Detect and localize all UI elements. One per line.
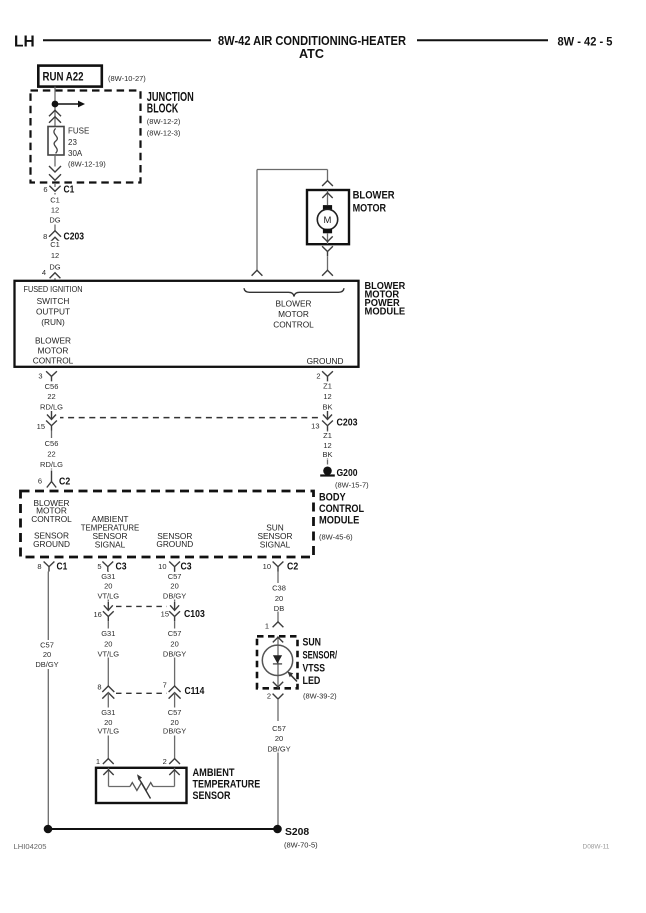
- svg-text:CONTROL: CONTROL: [31, 514, 72, 524]
- svg-text:15: 15: [37, 422, 45, 431]
- svg-text:20: 20: [275, 734, 283, 743]
- svg-text:FUSED IGNITION: FUSED IGNITION: [24, 284, 83, 294]
- svg-text:SUN: SUN: [303, 636, 322, 648]
- svg-text:CONTROL: CONTROL: [33, 355, 74, 365]
- svg-text:G31: G31: [101, 572, 115, 581]
- svg-text:BK: BK: [322, 402, 332, 411]
- svg-text:VT/LG: VT/LG: [97, 592, 119, 601]
- svg-text:12: 12: [323, 392, 331, 401]
- svg-text:C1: C1: [50, 196, 60, 205]
- svg-text:FUSE: FUSE: [68, 127, 89, 136]
- svg-text:22: 22: [47, 392, 55, 401]
- svg-text:RD/LG: RD/LG: [40, 402, 63, 411]
- svg-text:C203: C203: [64, 231, 85, 242]
- svg-text:C1: C1: [57, 562, 68, 573]
- svg-text:DB/GY: DB/GY: [35, 660, 58, 669]
- svg-text:6: 6: [43, 185, 47, 194]
- svg-text:12: 12: [323, 441, 331, 450]
- svg-text:10: 10: [263, 562, 271, 571]
- svg-text:G31: G31: [101, 708, 115, 717]
- svg-text:20: 20: [170, 718, 178, 727]
- svg-text:LED: LED: [303, 675, 321, 687]
- svg-text:(8W-70-5): (8W-70-5): [284, 841, 318, 850]
- svg-text:C3: C3: [181, 562, 192, 573]
- svg-text:C57: C57: [40, 641, 54, 650]
- svg-text:AMBIENT: AMBIENT: [193, 767, 235, 779]
- svg-text:8: 8: [43, 232, 47, 241]
- svg-text:20: 20: [43, 650, 51, 659]
- svg-text:G31: G31: [101, 629, 115, 638]
- svg-text:23: 23: [68, 138, 77, 147]
- svg-text:C38: C38: [272, 584, 286, 593]
- svg-text:MOTOR: MOTOR: [353, 203, 387, 215]
- svg-text:VT/LG: VT/LG: [97, 650, 119, 659]
- svg-text:BODY: BODY: [319, 492, 346, 504]
- svg-text:MODULE: MODULE: [365, 306, 406, 317]
- svg-text:20: 20: [104, 582, 112, 591]
- svg-text:3: 3: [38, 372, 42, 381]
- svg-text:16: 16: [93, 610, 101, 619]
- svg-text:2: 2: [163, 757, 167, 766]
- svg-text:ATC: ATC: [299, 47, 324, 61]
- svg-text:15: 15: [161, 609, 169, 618]
- svg-text:LH: LH: [14, 34, 35, 51]
- svg-text:4: 4: [42, 268, 46, 277]
- svg-text:MOTOR: MOTOR: [278, 309, 309, 319]
- svg-text:C1: C1: [64, 184, 75, 195]
- svg-text:(8W-45-6): (8W-45-6): [319, 532, 353, 541]
- svg-text:7: 7: [163, 681, 167, 690]
- svg-text:20: 20: [170, 639, 178, 648]
- svg-text:RUN A22: RUN A22: [43, 70, 84, 84]
- svg-text:MODULE: MODULE: [319, 515, 359, 527]
- svg-text:C2: C2: [287, 561, 299, 572]
- svg-text:1: 1: [265, 621, 269, 630]
- svg-text:DB/GY: DB/GY: [163, 650, 186, 659]
- svg-text:20: 20: [104, 718, 112, 727]
- svg-text:DB/GY: DB/GY: [163, 727, 186, 736]
- svg-text:6: 6: [38, 477, 42, 486]
- svg-text:VTSS: VTSS: [303, 662, 326, 674]
- svg-text:GROUND: GROUND: [156, 539, 193, 549]
- svg-text:8: 8: [97, 682, 101, 691]
- svg-text:Z1: Z1: [323, 431, 332, 440]
- svg-text:13: 13: [311, 422, 319, 431]
- svg-text:(8W-12-19): (8W-12-19): [68, 159, 106, 168]
- svg-text:1: 1: [96, 757, 100, 766]
- svg-text:22: 22: [47, 449, 55, 458]
- svg-text:C203: C203: [337, 417, 358, 428]
- svg-text:TEMPERATURE: TEMPERATURE: [193, 778, 261, 790]
- svg-text:2: 2: [316, 372, 320, 381]
- svg-text:DB/GY: DB/GY: [267, 745, 290, 754]
- svg-text:MOTOR: MOTOR: [38, 345, 69, 355]
- svg-text:SIGNAL: SIGNAL: [260, 540, 291, 550]
- svg-text:DG: DG: [49, 262, 60, 271]
- svg-text:C56: C56: [45, 382, 59, 391]
- svg-text:G200: G200: [337, 468, 358, 479]
- svg-text:BLOWER: BLOWER: [353, 190, 395, 202]
- svg-text:20: 20: [275, 594, 283, 603]
- svg-text:SIGNAL: SIGNAL: [95, 540, 126, 550]
- svg-text:M: M: [324, 215, 332, 226]
- svg-text:(8W-39-2): (8W-39-2): [303, 691, 337, 700]
- svg-text:CONTROL: CONTROL: [319, 503, 364, 515]
- svg-text:SENSOR/: SENSOR/: [303, 649, 338, 661]
- svg-text:CONTROL: CONTROL: [273, 320, 314, 330]
- svg-text:C103: C103: [184, 609, 205, 620]
- svg-text:12: 12: [51, 251, 59, 260]
- svg-text:2: 2: [267, 692, 271, 701]
- svg-text:GROUND: GROUND: [307, 356, 344, 366]
- svg-text:BK: BK: [322, 450, 332, 459]
- svg-text:C114: C114: [185, 686, 205, 697]
- svg-text:Z1: Z1: [323, 381, 332, 390]
- svg-text:S208: S208: [285, 827, 310, 838]
- svg-text:10: 10: [158, 562, 166, 571]
- svg-text:DB: DB: [274, 604, 284, 613]
- svg-text:(8W-15-7): (8W-15-7): [335, 480, 369, 489]
- svg-text:20: 20: [170, 582, 178, 591]
- svg-text:5: 5: [97, 562, 101, 571]
- svg-text:C57: C57: [168, 708, 182, 717]
- svg-text:8W - 42 - 5: 8W - 42 - 5: [558, 34, 613, 48]
- svg-text:12: 12: [51, 206, 59, 215]
- svg-text:C57: C57: [168, 572, 182, 581]
- svg-text:C1: C1: [50, 240, 60, 249]
- svg-text:C2: C2: [59, 476, 71, 487]
- svg-text:BLOWER: BLOWER: [276, 298, 312, 308]
- svg-text:20: 20: [104, 639, 112, 648]
- svg-text:OUTPUT: OUTPUT: [36, 307, 70, 317]
- svg-text:C56: C56: [45, 439, 59, 448]
- svg-text:SWITCH: SWITCH: [37, 296, 70, 306]
- svg-text:LHI04205: LHI04205: [14, 844, 47, 851]
- svg-text:DB/GY: DB/GY: [163, 592, 186, 601]
- svg-text:(8W-12-3): (8W-12-3): [147, 129, 181, 138]
- svg-text:BLOWER: BLOWER: [35, 335, 71, 345]
- svg-text:30A: 30A: [68, 149, 83, 158]
- svg-text:(8W-12-2): (8W-12-2): [147, 117, 181, 126]
- svg-text:VT/LG: VT/LG: [97, 727, 119, 736]
- svg-text:C3: C3: [116, 562, 127, 573]
- svg-text:RD/LG: RD/LG: [40, 460, 63, 469]
- svg-text:(RUN): (RUN): [41, 317, 65, 327]
- svg-text:GROUND: GROUND: [33, 539, 70, 549]
- svg-text:(8W-10-27): (8W-10-27): [108, 74, 146, 83]
- svg-text:C57: C57: [168, 629, 182, 638]
- svg-text:DG: DG: [49, 216, 60, 225]
- svg-text:D08W-11: D08W-11: [583, 844, 610, 851]
- svg-text:BLOCK: BLOCK: [147, 102, 179, 116]
- svg-text:8: 8: [37, 562, 41, 571]
- svg-text:C57: C57: [272, 724, 286, 733]
- svg-text:SENSOR: SENSOR: [193, 790, 231, 802]
